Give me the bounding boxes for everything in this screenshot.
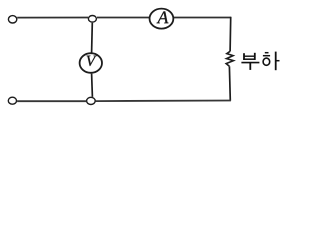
wire: node B to bottom-left terminal: [17, 100, 86, 102]
부 : ㅜ stem: [249, 63, 251, 70]
terminal T1 (top-left input): [8, 16, 16, 23]
terminal T2 (bottom-left input): [8, 97, 16, 104]
voltmeter U2: [80, 53, 102, 73]
node A (top junction): [88, 15, 96, 22]
하 : ㅎ top stroke: [265, 52, 269, 54]
wire: voltmeter down to node B: [91, 74, 94, 97]
하 : ㅏ vertical: [275, 52, 277, 71]
wire: right side vertical down to load: [229, 17, 232, 52]
하 : ㅎ circle: [263, 58, 270, 65]
wire: top-left terminal to node A: [17, 17, 88, 19]
부 : ㅂ bottom bar: [243, 58, 255, 60]
ammeter U1: [150, 9, 174, 29]
부 : ㅂ right vertical: [254, 53, 256, 60]
부 : ㅜ horizontal: [241, 62, 259, 64]
wire: node A down to voltmeter: [91, 23, 94, 53]
부 : ㅂ middle bar: [244, 55, 255, 57]
label 부하 (load), glyph 부 : ㅂ left vertical: [241, 52, 279, 71]
wire: ammeter to top-right corner: [174, 17, 231, 19]
wire: bottom wire from corner to node B: [96, 100, 231, 103]
하 : ㅏ tick: [276, 60, 279, 62]
resistor load (zigzag): [226, 51, 233, 66]
wire: node A to ammeter: [97, 17, 149, 19]
wire: load bottom to bottom-right corner: [228, 66, 231, 100]
node B (bottom junction): [87, 97, 96, 104]
하 : ㅎ second stroke: [263, 55, 270, 57]
